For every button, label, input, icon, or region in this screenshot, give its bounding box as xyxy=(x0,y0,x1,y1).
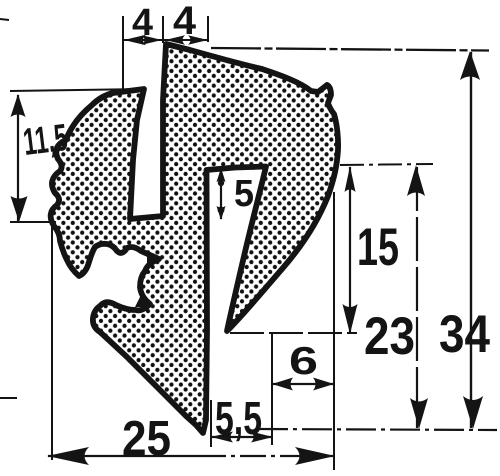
reference line y=333 xyxy=(230,332,357,334)
dimension line 23 xyxy=(416,167,418,428)
dimension line 34 xyxy=(470,52,472,428)
dimension line 4+4 xyxy=(124,39,208,41)
dimension line 11,5 xyxy=(17,95,19,221)
dimension 5 inside slot xyxy=(220,169,222,219)
svg-text:11,5: 11,5 xyxy=(21,117,70,164)
star cavity right spike xyxy=(147,252,161,267)
extension line x=211 xyxy=(210,400,212,447)
svg-text:4: 4 xyxy=(132,2,153,44)
extension line y=91 xyxy=(10,89,141,91)
bottom-left mark xyxy=(0,397,17,399)
top-left corner mark xyxy=(0,19,9,20)
dimension line 15 xyxy=(349,167,351,333)
svg-text:34: 34 xyxy=(439,305,490,364)
top reference line y=50 xyxy=(211,48,489,51)
dimension line 6 xyxy=(273,383,333,385)
seal profile body xyxy=(51,44,338,433)
extension line x=163 above body xyxy=(162,16,164,43)
extension line x=334 xyxy=(333,192,335,470)
dimension line 5,5 xyxy=(212,436,272,438)
svg-text:25: 25 xyxy=(122,412,171,466)
svg-text:5,5: 5,5 xyxy=(215,392,262,444)
extension line x=123 xyxy=(122,16,124,91)
star cavity lower spike xyxy=(135,295,152,307)
dimension line 25 xyxy=(48,455,200,457)
bottom datum line y=429 xyxy=(258,429,497,430)
reference line y=165 xyxy=(340,164,433,165)
extension line x=272 xyxy=(271,334,273,445)
svg-text:6: 6 xyxy=(289,340,318,383)
svg-text:23: 23 xyxy=(364,307,415,366)
extension line x=52 xyxy=(51,208,53,460)
svg-text:5: 5 xyxy=(234,173,254,215)
svg-text:4: 4 xyxy=(173,0,197,43)
extension line y=222 xyxy=(10,221,56,223)
svg-text:15: 15 xyxy=(357,218,399,277)
extension line x=208 xyxy=(207,16,209,42)
